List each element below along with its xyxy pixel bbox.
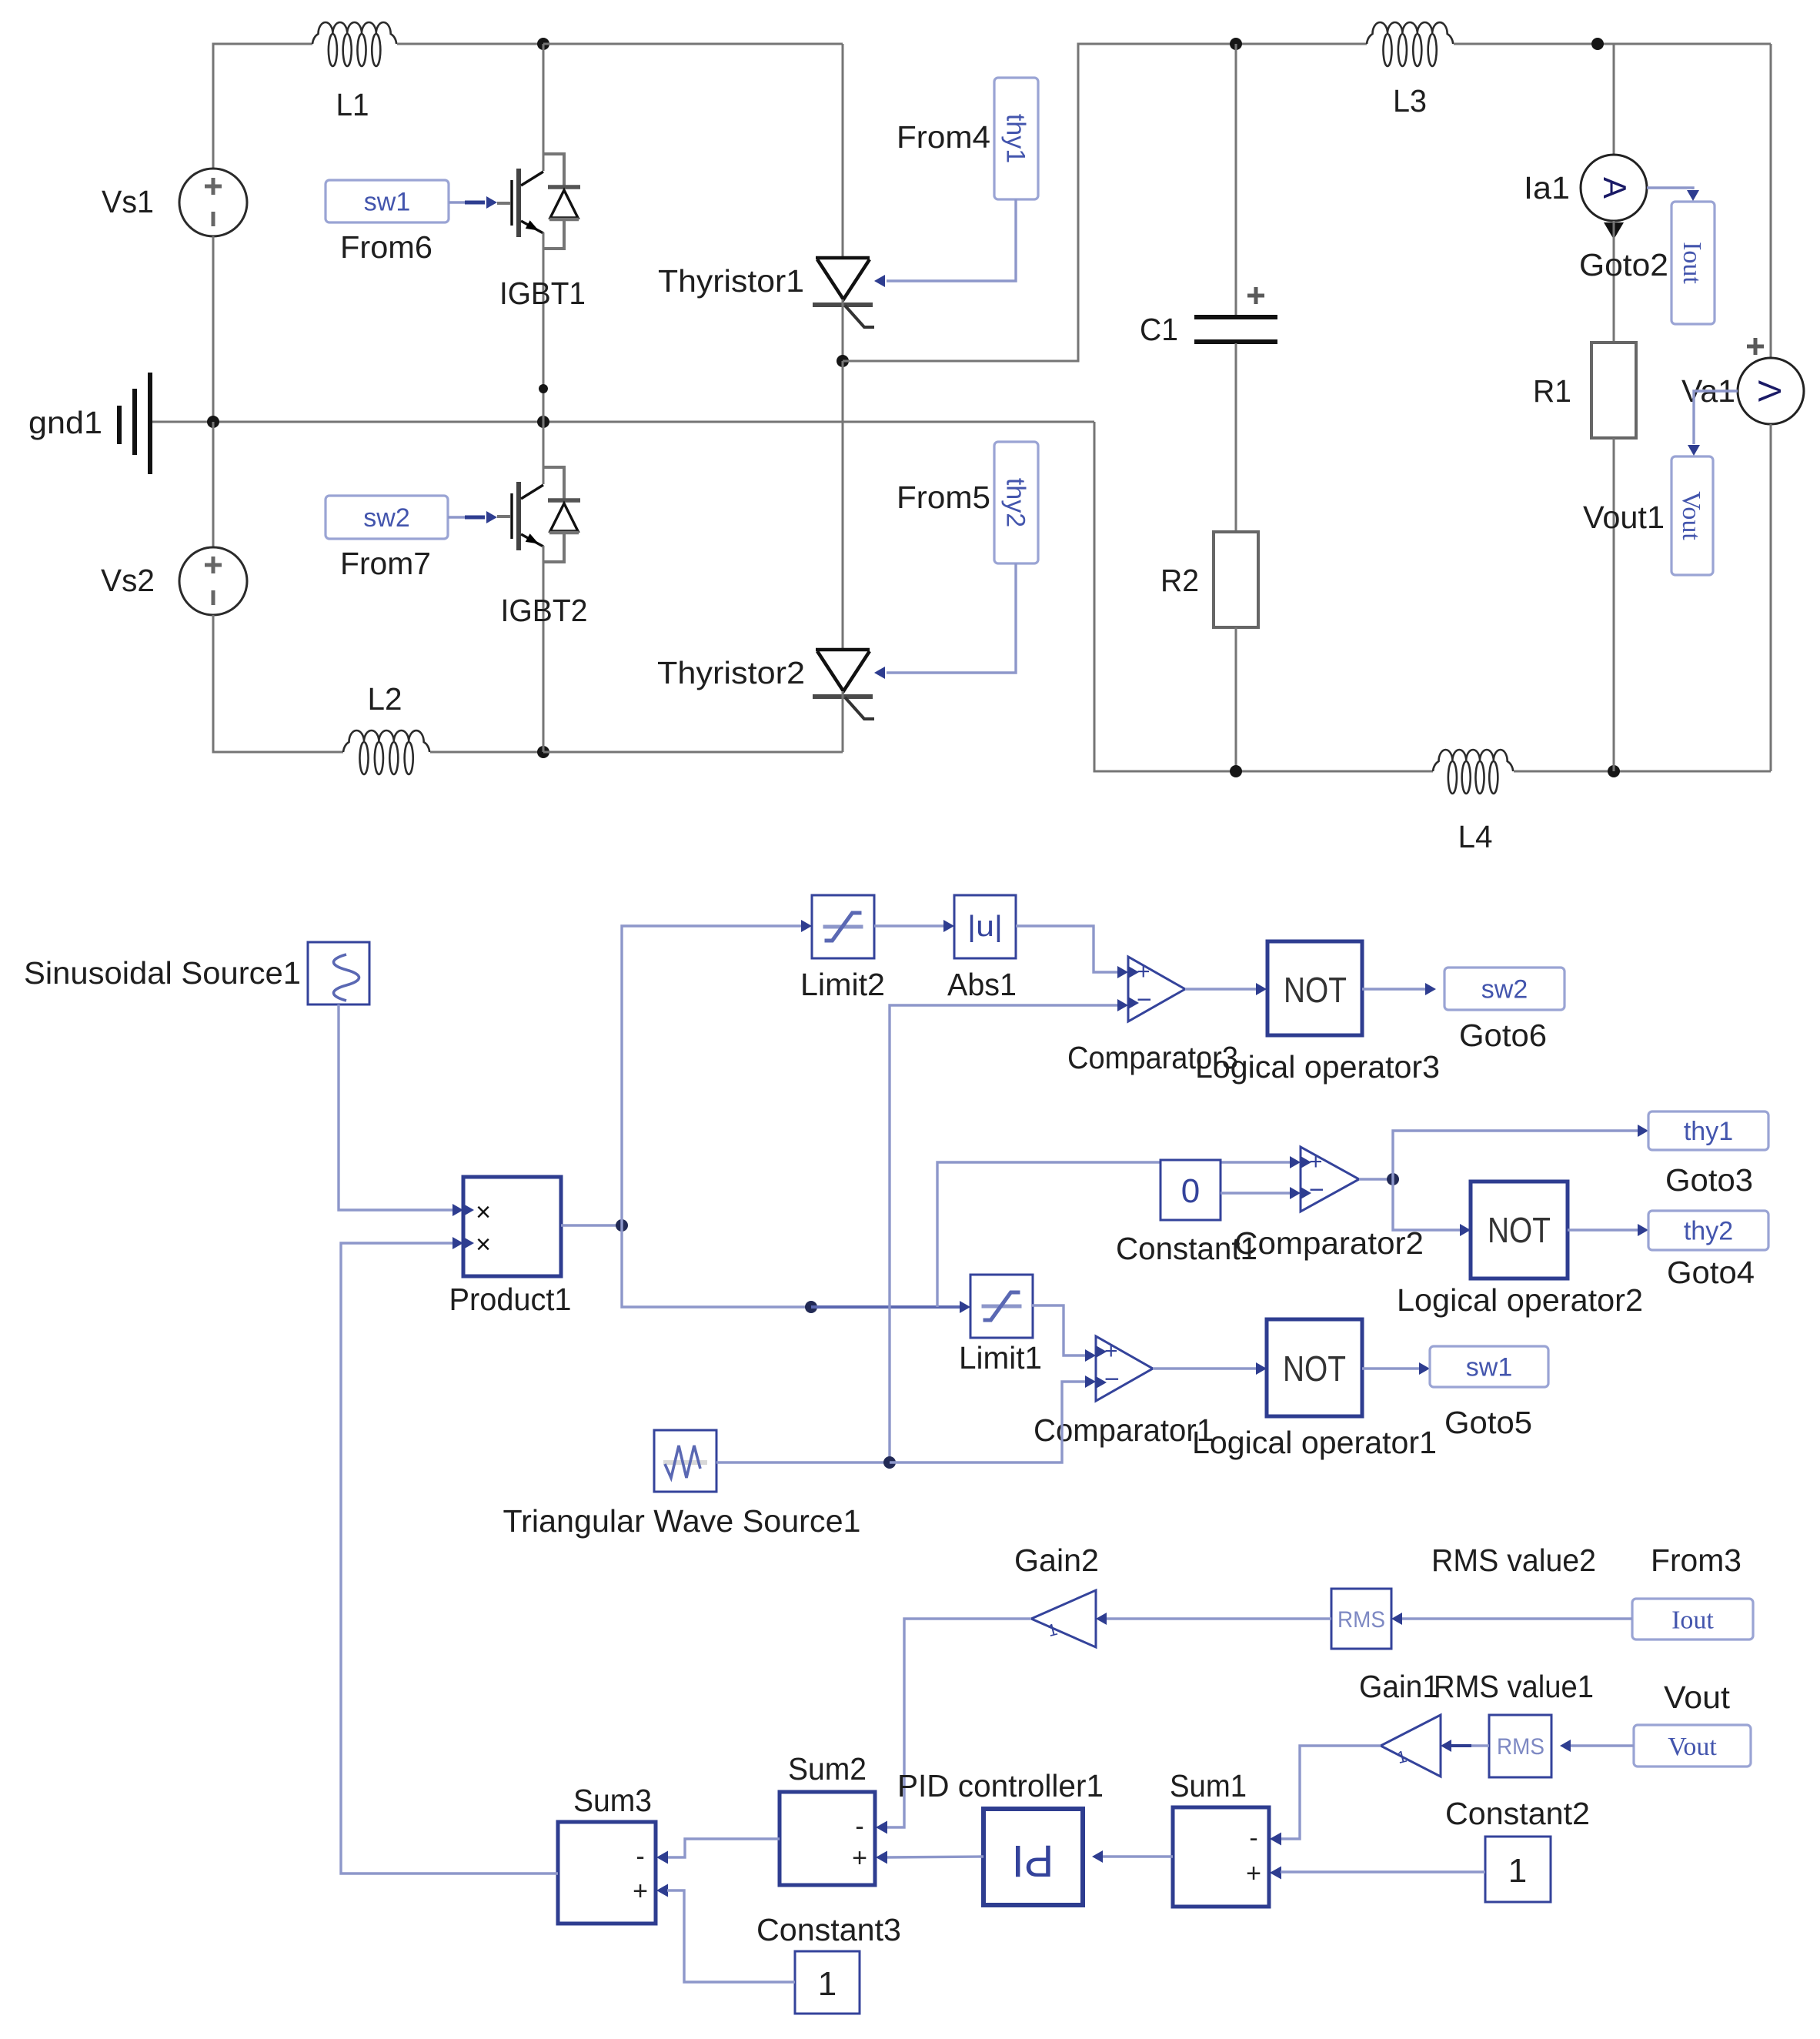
wire: ammeter branch from top rail <box>1613 44 1615 155</box>
svg-text:From3: From3 <box>1651 1543 1742 1578</box>
wire: R1 bottom to bottom rail <box>1613 438 1615 771</box>
node: gnd rail at IGBT branch <box>537 416 549 428</box>
svg-text:L2: L2 <box>368 681 402 717</box>
wire: sw2 gate drive with arrow into IGBT2 <box>448 511 497 523</box>
limiter block Limit1 <box>970 1275 1033 1338</box>
node: bottom rail at load branch <box>1608 765 1620 777</box>
goto tag Goto4 (thy2) <box>1648 1211 1768 1250</box>
svg-text:Constant2: Constant2 <box>1445 1796 1590 1831</box>
svg-text:thy1: thy1 <box>1001 114 1030 163</box>
wire: IGBT1 emitter to gnd rail <box>543 232 545 422</box>
svg-text:Gain1: Gain1 <box>1359 1669 1439 1704</box>
svg-text:Sum1: Sum1 <box>1170 1768 1247 1803</box>
label PID controller1 <box>897 1768 1104 1803</box>
inductor L3 <box>1367 22 1453 66</box>
label Sum2 <box>788 1751 867 1787</box>
svg-text:A: A <box>1597 177 1633 199</box>
svg-text:Vout: Vout <box>1668 1733 1717 1761</box>
abs block Abs1 <box>954 895 1016 958</box>
label L2 <box>368 681 402 717</box>
label R1 <box>1533 373 1571 409</box>
wire: sw1 gate drive with arrow into IGBT1 <box>449 196 497 209</box>
svg-text:Iout: Iout <box>1678 242 1706 284</box>
label Vs2 <box>101 563 155 598</box>
label Triangular Wave Source1 <box>503 1503 861 1539</box>
wire: mid node link to top rail right section <box>843 44 1367 361</box>
wire: IGBT2 collector from gnd rail <box>543 422 545 484</box>
svg-text:L1: L1 <box>336 87 369 122</box>
svg-text:Vout: Vout <box>1664 1680 1731 1715</box>
wire: top rail IGBT1 node to Thyristor1 <box>543 43 843 45</box>
svg-text:PID controller1: PID controller1 <box>897 1768 1104 1803</box>
wire: Constant2 to Sum1 plus <box>1281 1870 1485 1873</box>
label L4 <box>1458 819 1493 854</box>
label Gain1 <box>1359 1669 1439 1704</box>
svg-text:Vout1: Vout1 <box>1583 500 1665 535</box>
wire: thy2 gate drive with arrow into Thyristor2 <box>874 563 1016 679</box>
svg-text:Goto4: Goto4 <box>1667 1255 1755 1290</box>
gain block Gain1 <box>1381 1715 1441 1777</box>
wire: Vout tag to RMS value1 <box>1560 1740 1634 1752</box>
wire: Gain1 output to Sum1 minus <box>1281 1746 1381 1839</box>
resistor R2 <box>1214 532 1258 627</box>
wire: Vs2 minus to lower-left rail <box>213 615 343 752</box>
wire: Comparator1 to Logical operator1 <box>1153 1362 1267 1375</box>
label Limit2 <box>800 967 885 1002</box>
svg-text:Logical operator1: Logical operator1 <box>1192 1425 1437 1460</box>
node: top rail at C1 <box>1230 38 1242 50</box>
junction: comparator2 output branch <box>1387 1173 1399 1185</box>
comparator Comparator2 <box>1301 1147 1359 1212</box>
sum block Sum1 <box>1173 1807 1281 1907</box>
transistor IGBT1 with antiparallel diode <box>497 154 580 249</box>
wire: C1 top from rail <box>1235 44 1237 316</box>
svg-text:PI: PI <box>1012 1836 1054 1886</box>
wire: right vertical top <box>1770 44 1772 358</box>
svg-text:L3: L3 <box>1393 83 1427 119</box>
svg-text:thy2: thy2 <box>1684 1217 1733 1246</box>
wire: Logical operator2 to Goto4 <box>1568 1224 1648 1236</box>
svg-text:L4: L4 <box>1458 819 1493 854</box>
wire: PID controller1 output to Sum2 plus <box>887 1857 983 1857</box>
wire: IGBT1 collector from top rail <box>543 44 545 171</box>
label Comparator2 <box>1234 1225 1424 1261</box>
pid block PID controller1 <box>983 1809 1083 1905</box>
svg-text:sw1: sw1 <box>364 188 410 217</box>
wire: Thyristor2 anode from mid node <box>842 361 844 650</box>
node: thyristor midpoint <box>837 355 849 367</box>
arrow into Comparator1 minus <box>1085 1375 1096 1388</box>
wire: bottom rail L4 to right corner <box>1514 770 1771 773</box>
wire: Ia1 to R1 <box>1613 221 1615 343</box>
goto tag Goto2 (Iout) <box>1671 202 1715 324</box>
wire: Vs1 minus to gnd rail <box>212 236 215 422</box>
wire: Product1 output to branch node <box>561 1224 622 1226</box>
arrow into Limit2 <box>801 920 812 932</box>
svg-text:−: − <box>1309 1175 1324 1205</box>
label Vout from-tag <box>1664 1680 1731 1715</box>
current direction arrow below Ia1 <box>1604 222 1624 239</box>
inductor L2 <box>343 730 429 774</box>
wire: RMS value1 to Gain1 <box>1441 1740 1489 1752</box>
wire: R2 bottom to bottom rail <box>1235 627 1237 771</box>
wire: Comparator3 to Logical operator3 <box>1185 983 1267 995</box>
junction: product output branch <box>616 1219 628 1232</box>
rms block RMS value2 <box>1331 1589 1391 1649</box>
label From6 <box>340 229 432 265</box>
svg-text:gnd1: gnd1 <box>28 405 102 440</box>
svg-text:NOT: NOT <box>1284 970 1347 1010</box>
svg-text:×: × <box>476 1230 491 1259</box>
svg-text:-: - <box>1249 1823 1257 1853</box>
svg-text:IGBT1: IGBT1 <box>499 276 586 311</box>
svg-text:RMS: RMS <box>1337 1607 1385 1633</box>
svg-text:From5: From5 <box>897 480 990 515</box>
svg-text:Product1: Product1 <box>449 1282 572 1317</box>
wire: top rail L3 to right corner <box>1454 43 1771 45</box>
label Goto3 <box>1665 1162 1753 1198</box>
wire: Thyristor1 anode from top rail <box>842 44 844 258</box>
wire: riser to Comparator2 plus <box>937 1162 1290 1307</box>
svg-text:Comparator1: Comparator1 <box>1034 1412 1214 1448</box>
label Abs1 <box>947 967 1017 1002</box>
wire: Comparator2 output to branch <box>1359 1178 1393 1180</box>
svg-text:+: + <box>1246 1859 1261 1888</box>
svg-text:−: − <box>1104 1365 1120 1394</box>
svg-text:NOT: NOT <box>1488 1210 1551 1250</box>
goto tag Goto5 (sw1) <box>1430 1346 1548 1387</box>
wire: Thyristor2 cathode to lower-left rail <box>842 691 844 752</box>
label From3 <box>1651 1543 1742 1578</box>
label RMS value1 <box>1434 1669 1594 1704</box>
wire: gnd rail corner down to bottom rail <box>1094 422 1433 771</box>
constant block Constant1 <box>1160 1160 1221 1220</box>
wire: branch down to Logical operator2 <box>1393 1179 1460 1230</box>
resistor R1 <box>1591 343 1636 438</box>
label From4 <box>897 119 990 155</box>
product block Product1 <box>463 1177 561 1276</box>
goto tag Goto3 (thy1) <box>1648 1111 1768 1150</box>
wire: branch up to Goto3 <box>1393 1131 1638 1179</box>
svg-text:Limit2: Limit2 <box>800 967 885 1002</box>
wire: top rail L1 to IGBT1 collector node <box>397 43 543 45</box>
label Goto4 <box>1667 1255 1755 1290</box>
label Constant1 <box>1116 1231 1257 1266</box>
inductor L4 <box>1433 750 1513 794</box>
node: top rail at ammeter branch <box>1591 38 1604 50</box>
svg-text:sw2: sw2 <box>363 503 409 533</box>
arrow into Logical operator2 <box>1460 1224 1471 1236</box>
svg-text:Sum3: Sum3 <box>573 1783 652 1818</box>
svg-text:Goto3: Goto3 <box>1665 1162 1753 1198</box>
svg-text:|u|: |u| <box>967 911 1003 943</box>
wire: lower-left rail L2 to IGBT2 <box>430 751 543 754</box>
from tag From6 (sw1) <box>326 180 449 222</box>
label Va1 <box>1681 373 1735 409</box>
node: top rail at IGBT1 branch <box>537 38 549 50</box>
from tag From5 (thy2) <box>994 442 1038 563</box>
svg-text:Goto6: Goto6 <box>1459 1018 1547 1053</box>
gain block Gain2 <box>1031 1590 1096 1647</box>
svg-text:From7: From7 <box>340 546 431 581</box>
goto tag Vout1 (Vout) <box>1671 456 1713 575</box>
label L1 <box>336 87 369 122</box>
wire: Constant3 to Sum3 plus <box>667 1890 795 1982</box>
svg-text:NOT: NOT <box>1283 1349 1346 1389</box>
label gnd1 <box>28 405 102 440</box>
label Vs1 <box>102 184 154 219</box>
svg-text:×: × <box>476 1198 491 1227</box>
arrow into Comparator3 minus <box>1117 999 1128 1011</box>
svg-text:C1: C1 <box>1140 312 1178 347</box>
junction: limit1 feed <box>805 1301 817 1313</box>
wire: Va1 measurement to Vout tag <box>1688 391 1738 456</box>
wire: gnd rail <box>152 421 1094 423</box>
label L3 <box>1393 83 1427 119</box>
goto tag Goto6 (sw2) <box>1444 968 1565 1010</box>
limiter block Limit2 <box>812 895 874 958</box>
wire: Thyristor1 cathode to mid node <box>842 299 844 361</box>
label Thyristor2 <box>657 655 805 690</box>
svg-text:Sinusoidal Source1: Sinusoidal Source1 <box>24 955 301 991</box>
arrow into Product1 input 2 <box>452 1237 463 1249</box>
inductor L1 <box>312 22 396 66</box>
from tag From3 (Iout) <box>1632 1599 1753 1640</box>
plus mark at Va1 <box>1747 338 1764 355</box>
svg-text:Vout: Vout <box>1677 491 1705 540</box>
svg-text:Abs1: Abs1 <box>947 967 1017 1002</box>
svg-text:sw2: sw2 <box>1481 975 1528 1004</box>
sum block Sum3 <box>558 1822 668 1924</box>
label Goto6 <box>1459 1018 1547 1053</box>
label From7 <box>340 546 431 581</box>
source block Triangular Wave Source1 <box>654 1430 716 1492</box>
wire: Gain2 output to Sum2 minus <box>887 1619 1031 1827</box>
svg-text:Goto5: Goto5 <box>1444 1405 1532 1440</box>
wire: Logical operator3 to Goto6 <box>1362 983 1436 995</box>
wire: top rail left (Vs1 to L1) <box>213 44 312 169</box>
arrow into PID controller1 <box>1092 1850 1103 1863</box>
label Logical operator2 <box>1397 1282 1643 1318</box>
svg-text:thy1: thy1 <box>1684 1117 1733 1146</box>
wire: Sum2 output to Sum3 minus <box>667 1839 780 1857</box>
arrow into Comparator3 plus <box>1117 966 1128 978</box>
not block Logical operator1 <box>1267 1319 1362 1416</box>
comparator Comparator3 <box>1128 957 1185 1021</box>
svg-text:Vs2: Vs2 <box>101 563 155 598</box>
svg-text:0: 0 <box>1181 1172 1200 1210</box>
junction: triangle wave branch <box>883 1456 896 1469</box>
not block Logical operator3 <box>1267 941 1362 1035</box>
from tag Vout (Vout) <box>1634 1725 1751 1767</box>
from tag From7 (sw2) <box>326 496 448 539</box>
wire: feed to Limit1 with arrow <box>811 1301 970 1313</box>
svg-text:From6: From6 <box>340 229 432 265</box>
label Vout1 <box>1583 500 1665 535</box>
label From5 <box>897 480 990 515</box>
svg-text:−: − <box>1137 985 1152 1014</box>
svg-text:IGBT2: IGBT2 <box>501 593 588 628</box>
comparator Comparator1 <box>1096 1336 1153 1401</box>
svg-text:Sum2: Sum2 <box>788 1751 867 1787</box>
terminal dot IGBT1 emitter <box>539 384 548 393</box>
from tag From4 (thy1) <box>994 78 1038 199</box>
wire: Triangular Wave Source1 output <box>716 1461 890 1463</box>
label Comparator1 <box>1034 1412 1214 1448</box>
constant block Constant3 <box>795 1951 860 2014</box>
arrow into Comparator2 plus <box>1290 1156 1301 1168</box>
svg-text:R1: R1 <box>1533 373 1571 409</box>
plus mark at C1 <box>1247 287 1264 304</box>
sum block Sum2 <box>780 1792 887 1885</box>
wire: Limit2 to Abs1 <box>874 920 954 932</box>
ammeter Ia1 <box>1581 155 1647 221</box>
node: bottom rail at R2 branch <box>1230 765 1242 777</box>
label Constant2 <box>1445 1796 1590 1831</box>
svg-text:Gain2: Gain2 <box>1014 1543 1099 1578</box>
label Ia1 <box>1524 170 1570 206</box>
wire: Sum1 output to PID controller1 <box>1103 1855 1173 1857</box>
label Sum3 <box>573 1783 652 1818</box>
svg-text:Vs1: Vs1 <box>102 184 154 219</box>
svg-text:Iout: Iout <box>1671 1606 1714 1635</box>
wire: Limit1 output to Comparator1 plus <box>1032 1305 1085 1355</box>
wire: gnd rail to Vs2 plus <box>212 422 215 547</box>
arrow into Comparator1 plus <box>1085 1349 1096 1362</box>
svg-text:1: 1 <box>1508 1852 1527 1890</box>
voltage source Vs2 <box>179 547 247 615</box>
svg-text:Goto2: Goto2 <box>1579 247 1668 282</box>
wire: From3 to RMS value2 <box>1391 1613 1632 1625</box>
svg-text:+: + <box>633 1877 648 1906</box>
svg-text:1: 1 <box>818 1965 837 2003</box>
wire: Constant1 to Comparator2 minus <box>1221 1187 1301 1199</box>
svg-text:R2: R2 <box>1160 563 1199 598</box>
label Goto5 <box>1444 1405 1532 1440</box>
label Logical operator3 <box>1195 1049 1440 1085</box>
voltage source Vs1 <box>179 169 247 236</box>
wire: triangle riser to Comparator3 minus <box>890 1005 1117 1462</box>
svg-text:From4: From4 <box>897 119 990 155</box>
rms block RMS value1 <box>1489 1715 1551 1777</box>
svg-text:thy2: thy2 <box>1001 478 1030 527</box>
label Sinusoidal Source1 <box>24 955 301 991</box>
ground gnd1 <box>119 373 150 474</box>
svg-text:RMS value1: RMS value1 <box>1434 1669 1594 1704</box>
arrow into Goto3 <box>1638 1125 1648 1137</box>
wire: branch up to Limit2 <box>622 926 801 1225</box>
svg-text:+: + <box>1137 959 1150 984</box>
wire: Ia1 measurement to Iout tag <box>1647 188 1699 201</box>
wire: right vertical bottom <box>1770 424 1772 771</box>
label C1 <box>1140 312 1178 347</box>
constant block Constant2 <box>1485 1837 1551 1902</box>
label Sum1 <box>1170 1768 1247 1803</box>
node: gnd rail at Vs branch <box>207 416 219 428</box>
label Comparator3 <box>1067 1040 1238 1075</box>
label R2 <box>1160 563 1199 598</box>
svg-text:+: + <box>1309 1149 1323 1175</box>
svg-text:RMS value2: RMS value2 <box>1431 1543 1596 1578</box>
node: lower-left rail at IGBT2 <box>537 746 549 758</box>
svg-text:Thyristor1: Thyristor1 <box>658 263 804 299</box>
wire: branch down to Limit1 feed <box>622 1225 811 1307</box>
svg-text:Logical operator3: Logical operator3 <box>1195 1049 1440 1085</box>
label Limit1 <box>959 1340 1042 1375</box>
svg-text:Constant3: Constant3 <box>756 1912 901 1947</box>
wire: triangle wave to Comparator1 minus <box>890 1382 1085 1462</box>
svg-text:Logical operator2: Logical operator2 <box>1397 1282 1643 1318</box>
svg-text:sw1: sw1 <box>1466 1353 1512 1382</box>
label Thyristor1 <box>658 263 804 299</box>
wire: Sum3 output to Product1 input 2 <box>341 1243 558 1874</box>
svg-text:RMS: RMS <box>1497 1734 1544 1760</box>
svg-text:Limit1: Limit1 <box>959 1340 1042 1375</box>
svg-text:-: - <box>636 1842 644 1871</box>
not block Logical operator2 <box>1471 1182 1568 1279</box>
wire: Sinusoidal Source1 to Product1 input 1 <box>339 1004 463 1216</box>
capacitor C1 <box>1194 317 1277 342</box>
voltmeter Va1 <box>1738 358 1804 424</box>
wire: RMS value2 to Gain2 <box>1096 1613 1331 1625</box>
label Constant3 <box>756 1912 901 1947</box>
svg-text:Ia1: Ia1 <box>1524 170 1570 206</box>
wire: IGBT2 emitter to lower-left rail <box>543 546 545 752</box>
wire: thy1 gate drive with arrow into Thyristor1 <box>874 199 1016 287</box>
label IGBT1 <box>499 276 586 311</box>
svg-text:Triangular Wave Source1: Triangular Wave Source1 <box>503 1503 861 1539</box>
transistor IGBT2 with antiparallel diode <box>497 467 580 562</box>
svg-text:+: + <box>852 1843 867 1873</box>
label Logical operator1 <box>1192 1425 1437 1460</box>
label Goto2 <box>1579 247 1668 282</box>
source block Sinusoidal Source1 <box>308 942 369 1004</box>
svg-text:V: V <box>1752 380 1788 402</box>
wire: Abs1 to Comparator3 plus <box>1016 926 1117 972</box>
wire: lower-left rail IGBT2 to Thyristor2 <box>543 751 843 754</box>
label Product1 <box>449 1282 572 1317</box>
svg-text:Thyristor2: Thyristor2 <box>657 655 805 690</box>
thyristor Thyristor1 <box>813 258 874 327</box>
label Gain2 <box>1014 1543 1099 1578</box>
svg-text:+: + <box>1104 1339 1118 1364</box>
thyristor Thyristor2 <box>813 650 874 719</box>
wire: Logical operator1 to Goto5 <box>1362 1362 1430 1375</box>
svg-text:-: - <box>855 1812 863 1841</box>
label RMS value2 <box>1431 1543 1596 1578</box>
wire: C1 bottom to R2 <box>1235 343 1237 532</box>
label IGBT2 <box>501 593 588 628</box>
